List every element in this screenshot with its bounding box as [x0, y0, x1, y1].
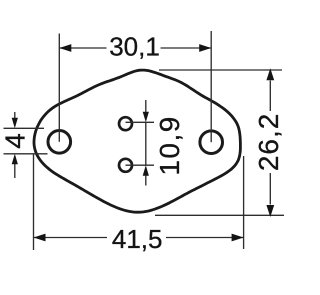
mounting hole left [48, 131, 71, 154]
dim 4 : lower shaft [14, 163, 16, 178]
dim 41,5 arrow left [34, 234, 46, 242]
dim 4 arrow down [12, 118, 18, 129]
thin dimension linework [4, 31, 285, 250]
dim 30,1 : right extension line [210, 31, 212, 142]
pin hole top [119, 117, 132, 130]
dim 30,1 : left extension line [58, 34, 60, 142]
dim 4 : upper shaft [14, 112, 16, 119]
dim 4 arrow up [12, 154, 18, 165]
svg-text:10,9: 10,9 [154, 115, 185, 176]
dim 41,5 : left extension line [33, 154, 35, 250]
dim 26,2 arrow down [266, 205, 274, 217]
dim 4 : top tick [4, 127, 45, 129]
svg-text:4: 4 [0, 133, 30, 149]
dim 10,9 : top tick [126, 121, 155, 123]
svg-text:30,1: 30,1 [109, 31, 160, 61]
pin hole bottom [119, 159, 132, 172]
dim 30,1 arrow left [59, 44, 71, 52]
dim 41,5 : right extension line [243, 156, 245, 249]
mounting hole right [200, 131, 223, 154]
dim 30,1 : dimension line segments [59, 47, 106, 49]
dim 4 : bottom tick [4, 153, 48, 155]
dim 10,9 : middle segment [145, 122, 147, 165]
arrowheads [12, 44, 275, 241]
dim 10,9 : bottom tick [126, 164, 155, 166]
dim 10,9 : lower shaft [145, 175, 147, 186]
svg-text:41,5: 41,5 [112, 224, 163, 254]
dim 26,2 : dimension line segments [269, 81, 271, 112]
dim 26,2 : top extension line [159, 69, 282, 71]
dim 26,2 : bottom extension line [155, 214, 284, 216]
dim 26,2 arrow up [266, 68, 274, 80]
dim 10,9 arrow down [143, 112, 149, 123]
dim 41,5 : dimension line segments [34, 237, 108, 239]
dim 10,9 : upper shaft [145, 100, 147, 114]
flange outline (TO-3 package) [34, 70, 240, 212]
dim 10,9 arrow up [143, 165, 149, 176]
svg-text:26,2: 26,2 [253, 113, 284, 172]
dim 30,1 arrow right [199, 44, 211, 52]
dim 41,5 arrow right [232, 234, 244, 242]
